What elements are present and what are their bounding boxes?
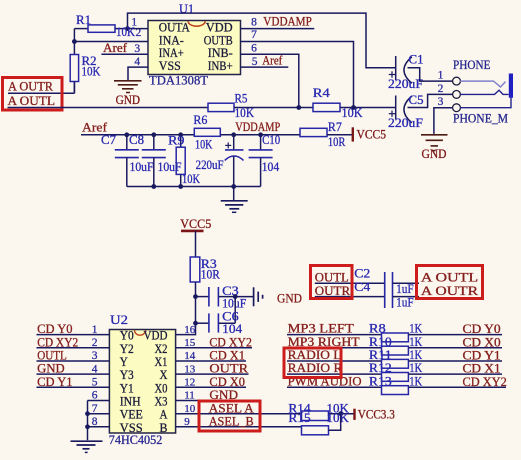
svg-text:R12: R12 <box>369 361 392 375</box>
svg-text:VDD: VDD <box>144 329 168 343</box>
wire R12 to CD X1 <box>408 373 502 375</box>
junction C8 bottom <box>151 184 156 189</box>
wire OUTL to C2 <box>315 282 385 284</box>
resistor R9 <box>176 135 185 187</box>
svg-text:Aref: Aref <box>82 120 108 134</box>
U1 pin names <box>159 20 233 73</box>
wire MP3 RIGHT to R10 <box>287 347 382 349</box>
svg-text:10K: 10K <box>82 65 101 79</box>
junction pin7 gnd <box>85 411 90 416</box>
svg-text:104: 104 <box>262 160 280 174</box>
svg-text:C5: C5 <box>409 93 424 107</box>
resistor R11 <box>382 359 409 368</box>
resistor R15 <box>302 426 329 435</box>
wire U1 pin8 stub to VDDAMP <box>241 28 315 30</box>
wire A OUTL rail to R5 <box>8 107 209 109</box>
svg-text:CD Y0: CD Y0 <box>463 322 501 336</box>
U2 pin names <box>120 329 168 435</box>
wire R3 to U2 pin16 <box>176 282 196 335</box>
svg-text:A OUTR: A OUTR <box>421 284 479 298</box>
resistor R10 <box>382 346 409 355</box>
svg-text:220uF: 220uF <box>388 116 423 130</box>
wire U2 pin4 stub <box>37 373 110 375</box>
wire C5 to PHONE pin2 <box>408 94 453 107</box>
svg-text:VDD: VDD <box>206 20 233 34</box>
svg-text:104: 104 <box>222 322 242 336</box>
wire U1 pin5 stub to Aref <box>241 66 289 68</box>
svg-text:RADIO R: RADIO R <box>288 361 344 375</box>
ground below U2 <box>71 441 103 452</box>
wire U2 pin12 stub <box>176 386 246 388</box>
svg-text:C7: C7 <box>101 133 116 147</box>
junction R9 bottom <box>178 184 183 189</box>
red highlight box ASEL A / ASEL_B <box>199 401 260 431</box>
wire VCC5 to R3 <box>195 231 197 257</box>
wire PWM AUDIO to R13 <box>287 386 382 388</box>
wire U1 pin3 stub to Aref <box>101 53 148 55</box>
svg-text:Aref: Aref <box>262 54 283 68</box>
svg-text:B: B <box>160 421 168 435</box>
svg-text:C8: C8 <box>129 133 144 147</box>
junction C3 node <box>193 294 198 299</box>
phonejack sleeve wire from pin3 <box>460 98 511 108</box>
wire R8 to CD Y0 <box>408 334 502 336</box>
svg-text:Y1: Y1 <box>120 381 134 395</box>
svg-text:R5: R5 <box>235 92 248 106</box>
wire OUTR to C4 <box>315 296 385 298</box>
U2 notch <box>135 330 146 335</box>
resistor R13 <box>382 386 409 395</box>
wire U2 INH VEE VSS to ground <box>87 401 89 441</box>
svg-text:10uF: 10uF <box>130 160 154 174</box>
svg-text:TDA1308T: TDA1308T <box>149 73 208 87</box>
svg-text:ASEL_B: ASEL_B <box>209 414 254 428</box>
svg-text:PHONE_M: PHONE_M <box>453 112 508 126</box>
svg-text:X2: X2 <box>155 342 168 356</box>
resistor R6 <box>194 128 220 136</box>
svg-text:INB+: INB+ <box>208 59 233 73</box>
red highlight box A OUTL / A OUTR right <box>417 266 483 299</box>
wire U2 pin2 stub <box>37 347 110 349</box>
junction pin1 node <box>125 26 130 31</box>
svg-text:220uF: 220uF <box>388 77 423 91</box>
junction C8 node <box>151 132 156 137</box>
svg-text:U2: U2 <box>110 313 128 327</box>
svg-text:R10: R10 <box>369 335 392 349</box>
wire U1 pin4 to ground <box>128 67 148 80</box>
wire C4 to A OUTR <box>393 296 420 298</box>
wire U2 pin11 stub <box>176 400 239 402</box>
svg-text:GND: GND <box>422 147 447 161</box>
svg-text:MP3 LEFT: MP3 LEFT <box>288 322 355 336</box>
svg-text:X: X <box>160 368 168 382</box>
PHONE pin 1 circle <box>453 77 461 85</box>
svg-text:1uF: 1uF <box>396 296 414 310</box>
svg-text:R1: R1 <box>76 13 91 27</box>
svg-text:VCC5: VCC5 <box>180 217 211 231</box>
svg-text:Y3: Y3 <box>120 368 134 382</box>
junction R9 node <box>178 132 183 137</box>
wire U2 pin5 stub <box>37 386 110 388</box>
svg-text:10K: 10K <box>116 25 135 39</box>
red highlight box RADIO L / RADIO R <box>284 348 341 378</box>
wire R5 to R4 <box>234 107 313 109</box>
wire R11 to CD Y1 <box>408 360 502 362</box>
svg-text:R15: R15 <box>288 411 310 425</box>
capacitor C7 10uF <box>115 135 139 187</box>
ground rotated right of C3 <box>254 287 263 306</box>
svg-text:A OUTR: A OUTR <box>8 79 54 93</box>
phonejack sleeve bar <box>509 74 513 98</box>
junction C9 bottom <box>231 184 236 189</box>
wire pin1 node up and across to C1 <box>128 13 396 68</box>
wire R10 to CD X0 <box>408 347 502 349</box>
wire R7 to VCC5 <box>327 134 353 136</box>
svg-text:VCC3.3: VCC3.3 <box>358 407 395 421</box>
svg-text:VDDAMP: VDDAMP <box>263 14 312 28</box>
svg-text:R11: R11 <box>369 348 392 362</box>
capacitor C5 polarized 220uF <box>389 96 412 123</box>
capacitor C3 10uF <box>196 287 254 307</box>
PHONE pin 2 circle <box>453 91 461 99</box>
svg-text:VDDAMP: VDDAMP <box>235 120 280 134</box>
svg-text:10R: 10R <box>201 268 221 282</box>
svg-text:R8: R8 <box>369 322 386 336</box>
phonejack ring contact from pin2 <box>460 90 509 94</box>
svg-text:R6: R6 <box>193 113 207 127</box>
wire VDDAMP rail <box>220 134 300 136</box>
svg-text:6: 6 <box>251 43 257 55</box>
wire U2 pin13 stub <box>176 373 249 375</box>
junction pin8 gnd <box>85 424 90 429</box>
wire MP3 LEFT to R8 <box>287 334 382 336</box>
power port VCC5 bar <box>352 127 354 141</box>
svg-text:R4: R4 <box>313 86 330 100</box>
svg-text:1K: 1K <box>409 335 422 349</box>
svg-text:10K: 10K <box>182 172 200 186</box>
wire U1 pin2 stub <box>74 41 148 43</box>
power port VCC3.3 bar <box>353 409 355 420</box>
junction C6 node <box>193 321 198 326</box>
PHONE pin 3 circle <box>453 104 461 112</box>
wire R14 to VCC3.3 <box>329 413 355 415</box>
U2 pin numbers <box>92 324 196 428</box>
wire C1 to PHONE pin1 <box>408 68 453 81</box>
capacitor C6 104 <box>196 297 236 333</box>
capacitor C8 10uF <box>142 135 166 187</box>
svg-text:1K: 1K <box>409 322 422 336</box>
svg-text:1K: 1K <box>409 361 422 375</box>
resistor R8 <box>382 333 409 342</box>
capacitor C2 1uF <box>385 272 393 308</box>
svg-text:X3: X3 <box>155 395 168 409</box>
wire U1 pin1 stub <box>128 28 149 30</box>
resistor R3 <box>190 257 200 282</box>
wire U2 pin3 stub <box>37 360 110 362</box>
resistor R5 <box>208 103 234 111</box>
wire U1 pin6 to R5 node <box>241 54 299 107</box>
svg-text:C10: C10 <box>262 133 280 147</box>
wire stub to filter ground <box>233 187 235 201</box>
svg-text:R9: R9 <box>168 133 185 147</box>
svg-text:Aref: Aref <box>103 41 128 55</box>
svg-text:C4: C4 <box>354 280 370 294</box>
svg-text:C1: C1 <box>409 53 424 67</box>
svg-text:Y0: Y0 <box>120 329 134 343</box>
svg-text:GND: GND <box>277 291 302 306</box>
wire PHONE pin3 to ground <box>434 108 453 134</box>
svg-text:A OUTL: A OUTL <box>421 271 478 285</box>
wire U2 pin9 to R15 <box>176 426 302 428</box>
svg-text:RADIO L: RADIO L <box>288 348 342 362</box>
svg-text:X0: X0 <box>155 381 168 395</box>
ground below C9 <box>221 201 248 213</box>
svg-text:CD XY2: CD XY2 <box>463 375 507 389</box>
svg-text:Y2: Y2 <box>120 342 134 356</box>
svg-text:4: 4 <box>134 56 140 68</box>
svg-text:74HC4052: 74HC4052 <box>109 433 163 447</box>
resistor R2 <box>70 42 78 94</box>
svg-text:1K: 1K <box>409 374 422 388</box>
wire RADIO R to R12 <box>287 373 382 375</box>
svg-text:CD X0: CD X0 <box>463 335 501 349</box>
wire RADIO L to R11 <box>287 360 382 362</box>
svg-text:2: 2 <box>438 83 444 95</box>
junction pin2 node <box>72 39 77 44</box>
wire U2 pin8 stub <box>88 426 110 428</box>
wire U2 pin14 stub <box>176 360 246 362</box>
wire U2 pin10 to R14 <box>176 413 302 415</box>
phonejack tip contact from pin1 <box>460 81 505 87</box>
capacitor C9 polarized 220uF <box>225 135 244 187</box>
svg-text:16: 16 <box>184 324 196 336</box>
svg-text:7: 7 <box>251 29 257 41</box>
U1 pin numbers <box>131 16 257 68</box>
wire U1 pin7 to feedback node <box>241 42 354 108</box>
wire bottom rail of Aref filter <box>127 186 261 188</box>
svg-text:CD Y1: CD Y1 <box>463 349 501 363</box>
svg-text:10R: 10R <box>328 135 346 149</box>
red highlight box OUTL / OUTR <box>311 266 353 299</box>
resistor R14 <box>302 411 329 421</box>
svg-text:10K: 10K <box>195 137 213 151</box>
svg-text:3: 3 <box>134 43 140 55</box>
multiplexer U2 74HC4052 body <box>109 330 175 434</box>
capacitor C10 104 <box>249 135 273 187</box>
ground GND below PHONE <box>421 135 448 151</box>
svg-text:10K: 10K <box>327 411 350 425</box>
resistor R12 <box>382 373 409 382</box>
wire U2 pin1 stub <box>37 334 110 336</box>
wire Aref rail <box>81 134 194 136</box>
red highlight box A OUTR / A OUTL <box>3 78 63 111</box>
U1 notch <box>188 21 205 26</box>
svg-text:1uF: 1uF <box>396 282 414 296</box>
resistor R4 <box>313 103 340 111</box>
svg-text:OUTR: OUTR <box>315 284 351 298</box>
svg-text:Y: Y <box>120 355 128 369</box>
svg-text:C2: C2 <box>354 267 370 281</box>
wire C2 to A OUTL <box>393 282 420 284</box>
svg-text:R13: R13 <box>369 374 392 388</box>
svg-text:CD X1: CD X1 <box>463 362 501 376</box>
svg-text:INH: INH <box>120 395 141 409</box>
wire U2 pin6 stub <box>88 400 110 402</box>
svg-text:220uF: 220uF <box>196 158 224 172</box>
svg-text:VCC5: VCC5 <box>357 127 387 141</box>
op-amp U1 TDA1308T body <box>148 21 241 75</box>
junction pin7 node on rail <box>351 105 356 110</box>
svg-text:A OUTL: A OUTL <box>8 94 55 108</box>
svg-text:5: 5 <box>252 56 258 68</box>
svg-text:OUTL: OUTL <box>315 271 349 285</box>
junction pin6 node on rail <box>296 105 301 110</box>
svg-text:A: A <box>160 408 168 422</box>
svg-text:PHONE: PHONE <box>453 58 491 72</box>
svg-text:8: 8 <box>251 16 257 28</box>
wire R4 to C5 <box>340 107 396 109</box>
svg-text:VSS: VSS <box>159 59 181 73</box>
wire A OUTR to R2 bottom <box>8 82 74 94</box>
svg-text:10uF: 10uF <box>158 160 182 174</box>
ground GND below U1 pin4 <box>114 81 142 93</box>
resistor R1 <box>74 25 127 32</box>
power port VCC5 above R3 <box>180 217 211 231</box>
resistor R7 <box>300 128 327 136</box>
svg-text:3: 3 <box>438 96 444 108</box>
svg-text:1K: 1K <box>409 348 422 362</box>
svg-text:1: 1 <box>438 70 444 82</box>
junction C7 node <box>124 132 129 137</box>
svg-text:R7: R7 <box>328 120 342 134</box>
wire R13 to CD XY2 <box>408 386 506 388</box>
wire R1 left down to pin2 node <box>73 29 75 42</box>
PHONE pin numbers <box>438 70 444 108</box>
junction R14 R15 node <box>338 411 343 416</box>
junction C3-C6 right node <box>233 294 238 299</box>
svg-text:VSS: VSS <box>120 421 143 435</box>
wire R15 right up to node <box>329 414 341 431</box>
junction C9 node <box>231 132 236 137</box>
junction C10 node <box>258 132 263 137</box>
svg-text:VEE: VEE <box>120 408 143 422</box>
svg-text:X1: X1 <box>155 355 168 369</box>
wire U2 pin7 stub <box>88 413 110 415</box>
svg-text:GND: GND <box>116 93 141 107</box>
capacitor C1 polarized 220uF <box>389 56 412 83</box>
svg-text:OUTA: OUTA <box>159 20 190 34</box>
wire U2 pin15 stub <box>176 347 252 349</box>
